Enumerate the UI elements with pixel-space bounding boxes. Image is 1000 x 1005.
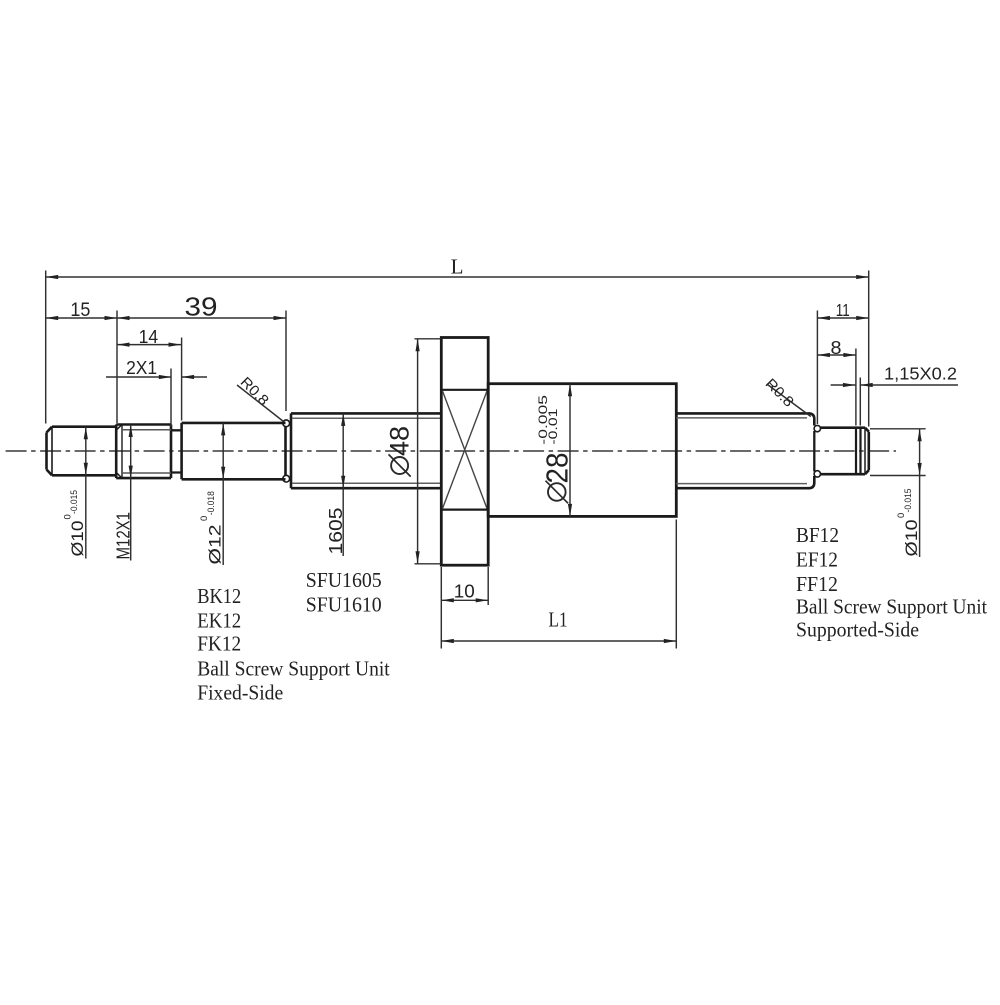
flange cross-section X mark [443,391,488,509]
extension line groove left 2X1 [170,369,172,428]
dimension 1,15X0.2 circlip groove [831,384,856,386]
svg-text:2X1: 2X1 [126,357,157,378]
left journal shaft Ø10 [47,427,117,476]
centerline (shaft axis) [6,450,896,452]
svg-text:Fixed-Side: Fixed-Side [197,681,283,705]
svg-text:15: 15 [70,300,90,321]
M12X1 threaded section [116,425,171,479]
svg-text:BK12: BK12 [197,584,241,608]
extension line screw start [285,311,287,412]
extension line journal step right [816,311,818,425]
dimension 15 [46,317,117,319]
dimension 11 right journal [817,317,868,319]
svg-text:EK12: EK12 [197,609,241,633]
ball nut body Ø28 [488,384,676,517]
dimension 39 [117,317,286,319]
leader R0.8 right [767,384,811,417]
svg-text:Ø12: Ø12 [206,525,225,565]
extension line Ø12 start [181,338,183,421]
svg-text:10: 10 [454,581,475,602]
svg-text:0: 0 [199,516,210,521]
extension line circlip groove left [855,349,857,426]
svg-text:-0.01: -0.01 [548,409,560,445]
dimension Ø28 nut body diameter [569,384,571,517]
svg-text:1,15X0.2: 1,15X0.2 [884,363,957,383]
dimension 2X1 thread relief [106,376,171,378]
R0.8 relief grooves at screw right end [814,425,820,431]
dimension L1 nut length [675,520,677,649]
svg-text:-0.018: -0.018 [206,491,217,515]
svg-text:R0.8: R0.8 [762,376,797,411]
circlip groove 1.15X0.2 on right journal [856,428,861,475]
svg-text:39: 39 [185,293,218,321]
svg-text:R0.8: R0.8 [237,374,272,409]
thread relief groove 2X1 [171,430,182,472]
svg-text:0: 0 [62,514,73,519]
svg-text:Ball Screw Support Unit: Ball Screw Support Unit [197,657,390,681]
R0.8 relief grooves at screw start [283,420,290,427]
svg-text:14: 14 [139,326,159,347]
svg-text:Supported-Side: Supported-Side [796,618,919,642]
svg-text:BF12: BF12 [796,523,839,547]
extension line left end face [45,271,47,424]
svg-text:L: L [451,254,464,278]
dimension Ø48 flange diameter [415,338,441,340]
dimension 14 [117,344,181,346]
svg-text:Ø10: Ø10 [902,520,921,557]
ball nut flange [441,338,488,566]
svg-text:EF12: EF12 [796,548,838,572]
ball screw threaded shaft right span [676,413,814,488]
svg-text:0: 0 [896,513,907,518]
dimension 10 flange width [440,567,442,649]
dimension Ø12 diameter [222,423,224,479]
dimension 8 [817,354,856,356]
svg-text:SFU1610: SFU1610 [306,593,382,617]
svg-text:SFU1605: SFU1605 [306,568,382,592]
svg-text:8: 8 [831,338,842,358]
extension line M12 shoulder [116,311,118,424]
dimension 1605 screw label [342,413,344,488]
dimension L overall length [46,276,869,278]
svg-text:-0.015: -0.015 [903,489,914,513]
right journal shaft Ø10 [821,428,869,475]
shoulder Ø10 to M12 [115,425,118,479]
ball screw threaded shaft left span [291,413,441,488]
svg-text:FK12: FK12 [197,632,241,656]
dimension M12X1 thread label [130,425,132,479]
svg-text:Ball Screw Support Unit: Ball Screw Support Unit [796,595,987,619]
svg-text:1605: 1605 [326,508,346,555]
svg-text:11: 11 [836,300,850,320]
extension line circlip groove right [859,378,861,426]
svg-text:Ø10: Ø10 [68,521,87,557]
svg-text:28: 28 [540,453,575,484]
leader R0.8 left [237,385,284,422]
svg-text:L1: L1 [549,608,568,632]
dimension Ø10 right journal diameter [870,428,926,430]
svg-text:FF12: FF12 [796,572,838,596]
svg-text:M12X1: M12X1 [114,512,134,560]
svg-text:48: 48 [385,426,415,456]
dimension Ø10 left journal diameter [85,427,87,476]
extension line right end face [868,271,870,427]
svg-text:-0.015: -0.015 [69,490,80,514]
Ø12 cylindrical section [182,423,286,479]
